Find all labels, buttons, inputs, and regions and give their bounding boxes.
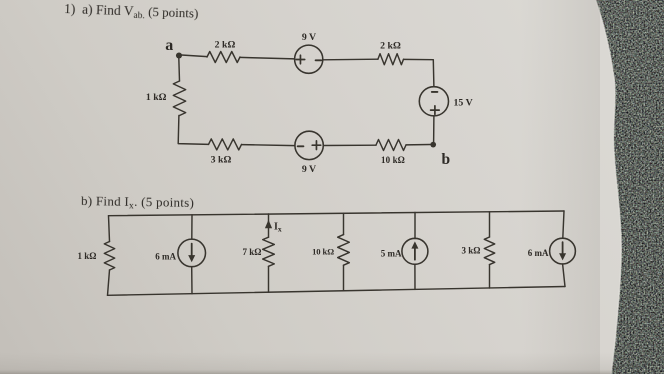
svg-text:3 kΩ: 3 kΩ: [211, 155, 232, 166]
svg-text:2 kΩ: 2 kΩ: [380, 41, 401, 52]
wire: top rail of ladder: [109, 211, 565, 216]
wire: right branch bottom lead: [563, 264, 565, 287]
svg-text:b: b: [441, 151, 450, 168]
resistor 3 kOhm (bottom, horizontal): [209, 139, 242, 150]
wire: node a to resistor 2k top-left: [182, 55, 208, 57]
resistor 3 kOhm (branch 6, vertical): [484, 237, 494, 265]
wire: branch 6 top lead (3 kOhm): [489, 212, 491, 237]
wire: branch 5 bottom lead: [414, 264, 416, 289]
wire: branch 6 bottom lead: [489, 265, 491, 288]
node a (dot): [176, 52, 182, 58]
wire: 2k resistor to top-right corner, down to 15V source: [404, 59, 434, 86]
wire: 1k resistor up to node a: [178, 58, 181, 81]
title: problem 1b "Find Ix": [81, 193, 194, 212]
wire: bottom rail of ladder: [108, 287, 566, 296]
svg-text:6 mA: 6 mA: [155, 252, 176, 262]
title: problem 1a "Find Vab": [64, 1, 199, 23]
wire: bottom-left corner up to 1k resistor: [178, 116, 208, 145]
svg-text:6 mA: 6 mA: [528, 248, 549, 258]
svg-text:1 kΩ: 1 kΩ: [146, 92, 167, 103]
wire: 9V source to resistor 3k: [242, 145, 295, 146]
voltage source 9V (top), + left / - right: [295, 45, 323, 73]
resistor 7 kOhm (branch 3, vertical): [263, 237, 275, 266]
svg-text:10 kΩ: 10 kΩ: [312, 246, 334, 256]
svg-text:3 kΩ: 3 kΩ: [462, 245, 481, 255]
wire: node b to resistor 10k: [406, 144, 430, 146]
svg-text:7 kΩ: 7 kΩ: [243, 247, 262, 257]
resistor 1 kOhm (left, vertical): [173, 81, 185, 116]
wire: left branch bottom lead: [108, 270, 110, 295]
wire: branch 2 top lead (6 mA source): [191, 215, 193, 239]
voltage source 9V (bottom), - left / + right: [295, 131, 323, 159]
wire: branch 4 bottom lead: [343, 265, 345, 291]
voltage source 15V, - top / + bottom: [419, 87, 448, 116]
svg-text:9 V: 9 V: [302, 164, 316, 175]
resistor 1 kOhm (branch 1, vertical): [104, 242, 114, 271]
wire: 2k resistor to 9V source (top): [240, 57, 295, 59]
wire: branch 4 top lead (10 kOhm): [343, 213, 345, 234]
wire: 10k resistor to 9V source (bottom): [323, 144, 376, 146]
svg-text:10 kΩ: 10 kΩ: [381, 155, 405, 165]
resistor 10 kOhm (branch 4, vertical): [338, 235, 350, 266]
svg-text:a: a: [165, 37, 173, 54]
arrow Ix (pointing up at top of 7k branch): [265, 220, 272, 229]
svg-text:1 kΩ: 1 kΩ: [78, 251, 97, 261]
node b (dot): [430, 142, 436, 148]
wire: branch 3 lead with Ix arrow (7 kOhm): [268, 214, 270, 237]
wire: left branch top lead: [109, 216, 110, 242]
wire: branch 5 top lead (5 mA source): [414, 213, 416, 239]
current source 6 mA (branch 7, arrow down): [550, 238, 576, 264]
resistor 2 kOhm (top right, horizontal): [378, 54, 404, 65]
current source 6 mA (branch 2, arrow down): [178, 239, 206, 267]
wire: 9V source to resistor 2k top-right: [323, 58, 378, 61]
svg-text:15 V: 15 V: [454, 98, 473, 109]
current source 5 mA (branch 5, arrow up): [402, 238, 428, 264]
wire: right branch top lead (6 mA source): [563, 211, 564, 238]
wire: 15V source down to node b: [433, 116, 435, 144]
svg-text:5 mA: 5 mA: [381, 248, 402, 258]
resistor 2 kOhm (top left, horizontal): [207, 52, 240, 63]
wire: branch 3 bottom lead: [268, 266, 270, 292]
svg-text:2 kΩ: 2 kΩ: [215, 40, 236, 51]
svg-text:9 V: 9 V: [302, 32, 316, 43]
resistor 10 kOhm (bottom, horizontal): [376, 140, 406, 151]
wire: branch 2 bottom lead: [191, 267, 193, 294]
